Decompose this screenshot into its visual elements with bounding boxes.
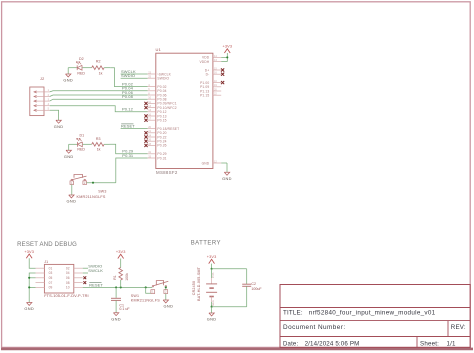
svg-text:P0.31: P0.31	[157, 156, 166, 160]
svg-text:P0.26: P0.26	[157, 144, 166, 148]
svg-text:Date:: Date:	[283, 342, 298, 348]
svg-text:+3V3: +3V3	[222, 45, 232, 49]
svg-text:RESET: RESET	[121, 124, 135, 129]
svg-text:P0.08: P0.08	[122, 94, 134, 99]
svg-text:GND: GND	[64, 154, 74, 159]
svg-text:C2: C2	[251, 282, 256, 286]
svg-text:1k: 1k	[99, 72, 103, 76]
svg-text:RESET: RESET	[89, 282, 103, 287]
svg-text:08: 08	[66, 281, 70, 285]
svg-text:nrf52840_four_input_minew_modu: nrf52840_four_input_minew_module_v01	[309, 310, 436, 317]
svg-text:KMR211NGLFS: KMR211NGLFS	[131, 298, 160, 302]
svg-text:09: 09	[49, 286, 53, 290]
svg-text:RED: RED	[77, 71, 85, 75]
svg-text:P0.12: P0.12	[122, 107, 134, 112]
svg-text:2/14/2024 5:06 PM: 2/14/2024 5:06 PM	[305, 341, 360, 348]
svg-text:SWCLK: SWCLK	[88, 268, 103, 273]
svg-text:MS88SF2: MS88SF2	[156, 170, 178, 175]
svg-text:GND: GND	[67, 199, 77, 204]
svg-text:D2: D2	[79, 57, 84, 61]
svg-text:+3V3: +3V3	[116, 250, 126, 254]
svg-text:Document Number:: Document Number:	[283, 324, 346, 331]
svg-text:GND: GND	[24, 306, 34, 311]
svg-text:GND: GND	[222, 176, 232, 181]
svg-text:BATTERY: BATTERY	[191, 240, 221, 246]
svg-text:P0.31: P0.31	[122, 153, 134, 158]
svg-text:REV:: REV:	[451, 324, 466, 331]
svg-text:SWDIO: SWDIO	[157, 77, 169, 81]
svg-text:+3V3: +3V3	[24, 250, 34, 254]
svg-text:SWDIO: SWDIO	[121, 73, 135, 78]
svg-text:KMR211NGLFS: KMR211NGLFS	[77, 195, 106, 199]
svg-text:RESET AND DEBUG: RESET AND DEBUG	[17, 242, 77, 248]
svg-text:J1: J1	[44, 260, 48, 264]
svg-text:D-: D-	[206, 73, 210, 77]
svg-text:03: 03	[49, 271, 53, 275]
svg-text:CR2450: CR2450	[192, 281, 196, 295]
svg-text:+3V3: +3V3	[207, 255, 217, 259]
svg-text:VDDH: VDDH	[199, 60, 209, 64]
svg-text:1k: 1k	[97, 148, 101, 152]
svg-text:P1.15: P1.15	[200, 94, 209, 98]
svg-text:1/1: 1/1	[447, 341, 456, 348]
svg-text:R2: R2	[96, 59, 101, 63]
svg-text:R3: R3	[96, 137, 101, 141]
svg-text:10: 10	[66, 286, 70, 290]
svg-text:0.1 uF: 0.1 uF	[119, 307, 130, 311]
svg-text:POS: POS	[211, 272, 215, 278]
svg-text:05: 05	[49, 276, 53, 280]
svg-text:04: 04	[66, 271, 70, 275]
svg-text:TITLE:: TITLE:	[283, 310, 303, 317]
svg-text:GND: GND	[202, 161, 210, 165]
svg-text:U1: U1	[156, 47, 162, 52]
svg-text:100k: 100k	[125, 273, 129, 281]
svg-text:R1: R1	[113, 275, 117, 280]
svg-text:FTS-105-01-F-DV-P-TRI: FTS-105-01-F-DV-P-TRI	[44, 293, 88, 298]
svg-text:GND: GND	[54, 124, 64, 129]
svg-text:GND: GND	[207, 317, 217, 322]
svg-text:J2: J2	[40, 77, 44, 81]
svg-text:P0.15: P0.15	[157, 119, 166, 123]
svg-text:GND: GND	[164, 304, 174, 309]
svg-text:GND: GND	[111, 316, 121, 321]
svg-text:100uF: 100uF	[251, 287, 262, 291]
svg-text:02: 02	[66, 266, 70, 270]
svg-text:01: 01	[49, 266, 53, 270]
svg-text:GND: GND	[63, 78, 73, 83]
svg-text:D1: D1	[80, 134, 85, 138]
svg-text:RED: RED	[77, 148, 85, 152]
svg-text:Sheet:: Sheet:	[420, 341, 439, 348]
svg-text:BAT-HLD-005-SMT: BAT-HLD-005-SMT	[197, 266, 201, 300]
svg-text:NEG: NEG	[211, 300, 215, 306]
svg-text:SW1: SW1	[131, 294, 139, 298]
svg-text:07: 07	[49, 281, 53, 285]
svg-text:SW3: SW3	[98, 190, 106, 194]
svg-text:06: 06	[66, 276, 70, 280]
